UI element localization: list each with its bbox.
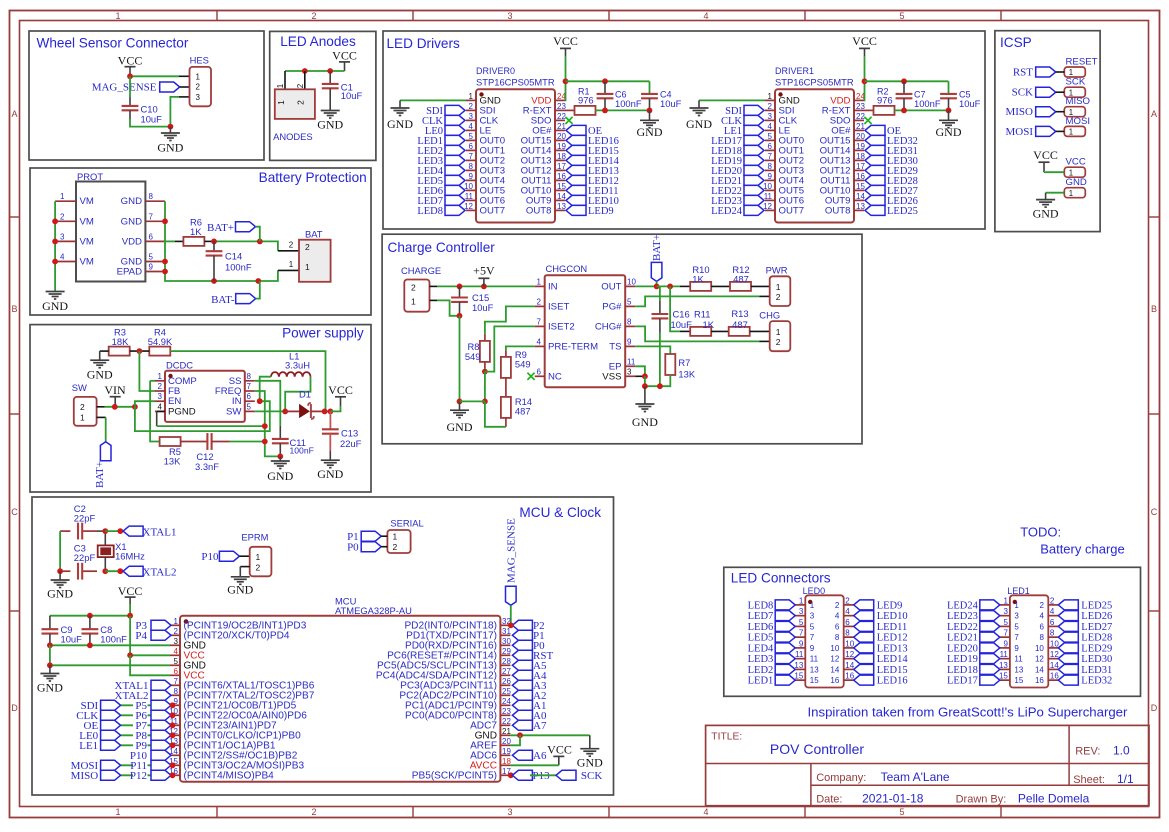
junction VM pin2 [52, 218, 58, 224]
svg-text:7: 7 [174, 677, 179, 686]
svg-text:9: 9 [1003, 639, 1008, 648]
junction GND drop (mcu) [47, 662, 53, 668]
svg-text:SERIAL: SERIAL [390, 518, 423, 529]
wire R11-R13 [711, 330, 729, 332]
wire pin21 GND [510, 734, 589, 736]
svg-text:9: 9 [627, 337, 632, 346]
resistor R1 976 [565, 87, 596, 115]
connector VCC pad (ICSP) [1064, 157, 1086, 178]
svg-text:Company:: Company: [816, 772, 866, 784]
LED0 outside pin numbers [794, 596, 854, 680]
section box LED Anodes [270, 31, 376, 160]
svg-text:2: 2 [776, 337, 781, 347]
title block Drawn By [956, 792, 1090, 806]
wire C10 to GND rail [130, 110, 170, 126]
DRIVER1 input net flags [744, 105, 764, 215]
section box Power supply [30, 325, 371, 492]
svg-text:2: 2 [393, 542, 398, 552]
wire VCC to HES pin1 [130, 75, 190, 77]
svg-text:15: 15 [557, 182, 566, 191]
svg-text:LED9: LED9 [588, 206, 614, 217]
svg-text:1: 1 [1014, 601, 1019, 610]
section box Battery Protection [30, 168, 371, 315]
svg-text:PRE-TERM: PRE-TERM [548, 341, 598, 352]
power flag VCC (wheel) [118, 54, 143, 77]
ground GND (xtal) [47, 571, 73, 600]
svg-text:LED1: LED1 [748, 676, 774, 687]
LED1 outside pin numbers [999, 596, 1059, 680]
svg-text:28: 28 [502, 657, 511, 666]
svg-text:2: 2 [80, 402, 85, 412]
junction anodes pin1 [302, 68, 308, 74]
junction C14 bottom [211, 278, 217, 284]
svg-text:12: 12 [830, 655, 839, 664]
svg-text:4: 4 [835, 612, 840, 621]
svg-text:MOSI: MOSI [1005, 126, 1033, 138]
svg-text:PG#: PG# [602, 301, 622, 312]
junction R8 GND rail [482, 399, 488, 405]
svg-text:LED Drivers: LED Drivers [387, 36, 460, 51]
svg-text:POV Controller: POV Controller [770, 741, 864, 757]
svg-text:11: 11 [795, 650, 804, 659]
svg-text:4: 4 [537, 337, 542, 346]
svg-text:1: 1 [80, 413, 85, 423]
ground GND (wheel) [157, 127, 183, 155]
MCU input junction dots [170, 702, 176, 778]
svg-text:5: 5 [247, 402, 252, 411]
connector LED1 [1007, 586, 1048, 688]
svg-text:BAT+: BAT+ [651, 234, 663, 261]
junction C4 bottom [647, 108, 653, 114]
svg-text:22: 22 [856, 112, 865, 121]
wire VCC to D1 node [330, 406, 340, 411]
svg-text:2: 2 [1039, 601, 1044, 610]
capacitor C14 [206, 241, 252, 281]
wire L1 left to IN [260, 377, 271, 402]
svg-text:8: 8 [174, 687, 179, 696]
svg-text:8: 8 [469, 162, 474, 171]
section box Charge Controller [382, 234, 862, 444]
svg-text:27: 27 [502, 667, 511, 676]
svg-text:C16: C16 [673, 309, 690, 320]
svg-text:Team A'Lane: Team A'Lane [881, 770, 950, 784]
junction C7 bottom [901, 108, 907, 114]
ground GND (DRIVER1 caps) [936, 110, 962, 139]
svg-text:LED27: LED27 [1081, 622, 1112, 633]
svg-text:13K: 13K [678, 369, 695, 380]
svg-text:LED8: LED8 [417, 206, 443, 217]
svg-text:1: 1 [196, 72, 201, 81]
svg-text:BAT: BAT [305, 229, 323, 240]
capacitor C7 [896, 81, 941, 110]
ground GND (ICSP) [1033, 193, 1059, 221]
svg-text:487: 487 [515, 406, 531, 417]
wire AREF to GND net [510, 735, 520, 745]
svg-text:B: B [1151, 304, 1157, 314]
svg-text:18: 18 [856, 152, 865, 161]
junction C bypass top (DRIVER1) [901, 78, 907, 84]
ground GND (anodes) [317, 88, 343, 131]
svg-text:LED14: LED14 [877, 654, 909, 665]
svg-text:MISO: MISO [71, 770, 99, 782]
junction R3/R4/FB [137, 348, 143, 354]
net flag SCK (ICSP) [1012, 87, 1056, 99]
svg-text:Sheet:: Sheet: [1073, 774, 1105, 786]
svg-text:16: 16 [1035, 676, 1044, 685]
svg-text:12: 12 [464, 202, 473, 211]
svg-text:31: 31 [502, 627, 511, 636]
svg-text:12: 12 [763, 202, 772, 211]
CHGCON right pins [625, 286, 635, 376]
wire VCC row pin6 [130, 655, 180, 675]
PROT left pins VM 1-4 [55, 201, 76, 261]
svg-text:18: 18 [502, 757, 511, 766]
svg-text:LED8: LED8 [748, 600, 774, 611]
capacitor C15 10uF [451, 286, 494, 315]
svg-text:1: 1 [276, 83, 285, 88]
svg-text:1: 1 [810, 601, 815, 610]
wire P13 to SCK [530, 774, 556, 776]
svg-text:8: 8 [627, 317, 632, 326]
svg-text:5: 5 [899, 807, 904, 817]
svg-text:10: 10 [627, 277, 636, 286]
svg-text:14: 14 [830, 665, 839, 674]
svg-text:D: D [1151, 703, 1158, 713]
power flag +5V [473, 264, 495, 287]
net flag XTAL2 (xtal) [123, 566, 176, 578]
PROT right pin numbers [149, 192, 154, 271]
svg-text:LED19: LED19 [947, 654, 978, 665]
svg-text:18: 18 [557, 152, 566, 161]
wire DRIVER1 pin1 GND [699, 99, 765, 101]
junction VM pin3 [52, 239, 58, 245]
svg-text:19: 19 [856, 142, 865, 151]
wire R8 bottom [484, 362, 486, 372]
svg-text:GND: GND [317, 118, 343, 132]
svg-text:3: 3 [174, 637, 179, 646]
section box LED Drivers [383, 31, 985, 229]
wire VCC to pad (ICSP) [1044, 171, 1064, 173]
net flag P13 (pin17) [512, 770, 550, 782]
capacitor C9 10uF [42, 616, 83, 646]
net flag SCK (pin17) [556, 770, 602, 782]
svg-text:3.3nF: 3.3nF [195, 461, 219, 472]
DRIVER0 right pin numbers [557, 92, 566, 211]
svg-text:ANODES: ANODES [273, 131, 313, 142]
svg-text:10: 10 [464, 182, 473, 191]
svg-text:1K: 1K [692, 273, 704, 284]
net flag BAT+ (charge) [651, 234, 663, 286]
svg-text:LED31: LED31 [1081, 665, 1112, 676]
MCU right pin names [376, 620, 498, 781]
DRIVER1 left pin numbers [763, 92, 772, 211]
svg-text:11: 11 [764, 192, 773, 201]
svg-text:10uF: 10uF [472, 302, 494, 313]
ground GND (R3) [87, 360, 113, 381]
connector MOSI pad [1064, 116, 1090, 137]
junction GND rail left (charge) [642, 383, 648, 389]
wire ISET2 net [485, 326, 535, 371]
wire MAG_SENSE to pin32 [510, 605, 512, 625]
svg-text:ATMEGA328P-AU: ATMEGA328P-AU [335, 605, 412, 616]
MCU left net flags [101, 620, 171, 780]
svg-text:Drawn By:: Drawn By: [956, 794, 1007, 806]
DCDC left pin names [168, 376, 197, 418]
svg-text:TODO:: TODO: [1020, 525, 1061, 540]
wire GND to pad (ICSP) [1046, 192, 1065, 194]
svg-text:LED7: LED7 [748, 611, 774, 622]
svg-text:LED6: LED6 [748, 622, 774, 633]
svg-text:EPRM: EPRM [241, 532, 268, 543]
svg-text:10uF: 10uF [141, 114, 163, 125]
junction C15 bottom [457, 313, 463, 319]
junction FREQ/C12 [262, 439, 268, 445]
svg-text:LED25: LED25 [887, 206, 918, 217]
svg-text:13: 13 [794, 661, 803, 670]
svg-text:10: 10 [1050, 639, 1059, 648]
svg-text:14: 14 [1050, 661, 1059, 670]
svg-text:GND: GND [157, 141, 183, 155]
svg-text:LED25: LED25 [1081, 600, 1112, 611]
svg-text:6: 6 [768, 142, 773, 151]
svg-text:3: 3 [768, 112, 773, 121]
svg-text:1: 1 [60, 192, 65, 201]
connector SW [72, 382, 97, 426]
svg-text:2: 2 [411, 283, 416, 293]
DRIVER1 right pins 24-13 [854, 100, 864, 210]
connector SERIAL [387, 518, 423, 554]
svg-text:Inspiration taken from GreatSc: Inspiration taken from GreatScott!'s LiP… [808, 705, 1129, 720]
svg-text:7: 7 [768, 152, 773, 161]
LED0 inside pin numbers [810, 601, 840, 685]
svg-text:7: 7 [149, 212, 154, 221]
svg-text:17: 17 [557, 162, 566, 171]
svg-text:16MHz: 16MHz [115, 551, 145, 562]
svg-text:30: 30 [502, 637, 511, 646]
svg-text:OUT7: OUT7 [779, 205, 805, 216]
svg-text:7: 7 [1003, 629, 1008, 638]
svg-text:GND: GND [87, 368, 113, 382]
svg-text:VCC: VCC [332, 49, 357, 63]
svg-text:2: 2 [768, 102, 773, 111]
LED0 net flags [775, 600, 874, 685]
wire VCC down to C10 [129, 76, 131, 106]
svg-text:11: 11 [810, 655, 819, 664]
PROT right pins [145, 201, 165, 271]
svg-text:4: 4 [60, 253, 65, 262]
svg-text:13: 13 [810, 665, 819, 674]
svg-text:1: 1 [276, 100, 286, 105]
svg-text:16: 16 [830, 676, 839, 685]
svg-text:CHG: CHG [759, 310, 780, 321]
svg-text:TITLE:: TITLE: [711, 732, 742, 743]
resistor R9 549 [501, 349, 531, 378]
junction pin32/MAG_SENSE [508, 622, 514, 628]
svg-text:19: 19 [502, 747, 511, 756]
pin number BAT 2 [289, 241, 294, 250]
resistor R10 1K [690, 264, 711, 291]
svg-text:1: 1 [776, 327, 781, 337]
svg-text:1: 1 [411, 297, 416, 307]
wire C2-C3 left to GND [59, 531, 61, 571]
svg-text:7: 7 [537, 317, 542, 326]
svg-text:1: 1 [393, 532, 398, 542]
ground GND (chgcon) [632, 386, 658, 429]
svg-text:ISET2: ISET2 [548, 321, 575, 332]
svg-text:14: 14 [845, 661, 854, 670]
svg-text:VCC: VCC [553, 34, 578, 48]
svg-text:9: 9 [1014, 644, 1019, 653]
junction EN branch [132, 404, 138, 410]
svg-text:GND: GND [227, 583, 253, 597]
svg-text:LED12: LED12 [877, 633, 908, 644]
junction D1/C13 [328, 409, 334, 415]
svg-text:LED28: LED28 [1081, 633, 1112, 644]
svg-text:PGND: PGND [168, 406, 196, 417]
svg-text:13: 13 [856, 202, 865, 211]
wire FREQ bus [255, 391, 280, 456]
svg-text:ISET: ISET [548, 301, 569, 312]
ground GND (mcu left) [37, 665, 63, 694]
net flag BAT+ (power) [94, 442, 111, 488]
ground GND (mcu right) [577, 735, 603, 769]
svg-text:VCC: VCC [328, 383, 353, 397]
wire VCC to VDD (DRIVER0) [564, 56, 567, 100]
MCU right pin numbers [502, 617, 511, 776]
power flag VCC (anodes) [332, 49, 357, 72]
svg-text:11: 11 [1014, 655, 1023, 664]
junction IN/L1 [257, 398, 263, 404]
pin number BAT 1 [289, 260, 294, 269]
svg-text:R11: R11 [694, 309, 711, 320]
junction GND xtal [57, 568, 63, 574]
svg-text:1: 1 [115, 807, 120, 817]
MCU right net flags [512, 620, 532, 760]
svg-text:9: 9 [149, 263, 154, 272]
svg-text:9: 9 [469, 172, 474, 181]
DRIVER1 input net labels [711, 106, 743, 217]
svg-text:VSS: VSS [602, 371, 621, 382]
ground GND (DRIVER1) [686, 100, 712, 131]
net flag RST (ICSP) [1013, 67, 1056, 79]
svg-text:2: 2 [158, 382, 163, 391]
connector MISO pad [1064, 96, 1090, 117]
svg-text:P12: P12 [130, 770, 147, 782]
svg-text:EPAD: EPAD [117, 267, 142, 278]
svg-text:20: 20 [557, 132, 566, 141]
svg-text:8: 8 [149, 192, 154, 201]
section box ICSP [995, 31, 1100, 232]
wire VCC to VDD (DRIVER1) [863, 56, 866, 100]
svg-text:3: 3 [810, 612, 815, 621]
svg-text:9: 9 [768, 172, 773, 181]
svg-text:3: 3 [627, 367, 632, 376]
ground GND (EPRM) [227, 577, 253, 597]
svg-text:GND: GND [1066, 177, 1087, 188]
power flag VCC (avcc) [547, 743, 572, 766]
svg-text:12: 12 [1035, 655, 1044, 664]
LED1 net flags [980, 600, 1079, 685]
svg-text:487: 487 [733, 273, 749, 284]
svg-text:100nF: 100nF [290, 446, 314, 456]
svg-text:Date:: Date: [816, 794, 842, 806]
svg-text:2: 2 [845, 596, 850, 605]
IC DCDC [165, 360, 245, 422]
note TODO [1020, 525, 1061, 540]
PROT left pin numbers [60, 192, 65, 261]
svg-text:LED18: LED18 [947, 665, 978, 676]
junction GND pin7 [162, 218, 168, 224]
junction C10/GND [168, 124, 174, 130]
wire SS to C11 [255, 381, 280, 426]
svg-text:LED20: LED20 [947, 643, 978, 654]
svg-text:A: A [11, 109, 17, 119]
svg-text:1K: 1K [190, 226, 202, 237]
svg-text:2: 2 [289, 241, 294, 250]
svg-text:BAT-: BAT- [211, 294, 235, 306]
DCDC right pins [245, 381, 255, 412]
svg-text:1: 1 [305, 262, 310, 272]
wire AVCC to VCC [510, 764, 558, 766]
svg-text:5: 5 [627, 297, 632, 306]
svg-text:1: 1 [776, 282, 781, 292]
capacitor C12 [181, 433, 230, 472]
svg-text:TS: TS [609, 341, 621, 352]
svg-text:10: 10 [763, 182, 772, 191]
diode D1 [285, 389, 324, 420]
svg-text:3: 3 [1014, 612, 1019, 621]
svg-text:PROT: PROT [77, 171, 103, 182]
no-connect DRIVER0 SDO [565, 117, 572, 124]
MCU left net labels [71, 680, 149, 782]
wire VSS to GND [644, 376, 646, 386]
svg-text:BAT+: BAT+ [94, 461, 106, 488]
connector BAT [299, 229, 331, 282]
svg-text:LED4: LED4 [748, 643, 774, 654]
svg-text:22pF: 22pF [74, 513, 96, 524]
svg-text:12: 12 [1050, 650, 1059, 659]
wire anodes pin1 drop [284, 71, 286, 89]
svg-text:LED5: LED5 [748, 633, 774, 644]
resistor R12 487 [730, 264, 751, 291]
capacitor C2 22pF [60, 503, 97, 540]
svg-text:GND: GND [387, 117, 413, 131]
svg-text:VCC: VCC [1033, 148, 1058, 162]
title block TITLE label [711, 732, 742, 743]
DRIVER0 right pins 24-13 [555, 100, 565, 210]
net flag MAG_SENSE (mcu) [506, 518, 518, 605]
junction C5 bottom [946, 108, 952, 114]
svg-text:LED23: LED23 [947, 611, 978, 622]
power flag VCC (supply) [328, 383, 353, 406]
svg-text:1: 1 [1003, 596, 1008, 605]
svg-text:1: 1 [768, 92, 773, 101]
svg-text:5: 5 [1014, 622, 1019, 631]
svg-text:2: 2 [296, 83, 305, 88]
IC DRIVER0 STP16CPS05MTR [476, 66, 555, 223]
svg-text:GND: GND [1033, 207, 1059, 221]
wire FB feedback [139, 351, 155, 391]
svg-text:REV:: REV: [1075, 746, 1100, 758]
wire R13 to CHG pin1 [750, 330, 770, 332]
svg-text:12: 12 [845, 650, 854, 659]
svg-text:3.3uH: 3.3uH [285, 360, 310, 371]
svg-text:RST: RST [1013, 67, 1033, 79]
junction C9 bottom [47, 642, 53, 648]
wire GND rail (charge) [460, 400, 485, 402]
svg-text:29: 29 [502, 647, 511, 656]
svg-text:20: 20 [856, 132, 865, 141]
